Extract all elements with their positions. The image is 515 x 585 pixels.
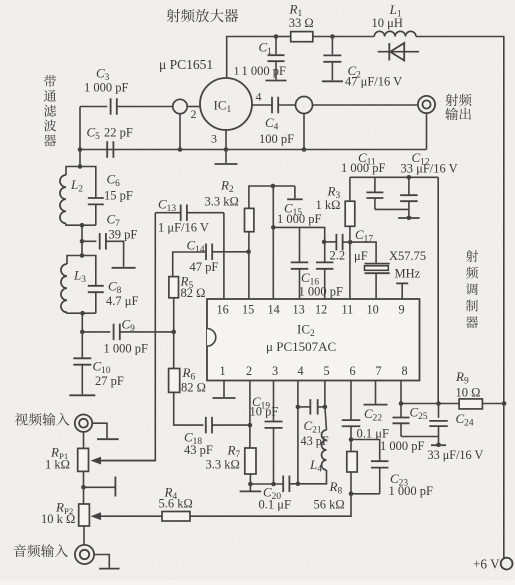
ground C2 [322, 80, 343, 82]
svg-text:12: 12 [315, 303, 327, 317]
label C4 [265, 115, 279, 133]
svg-text:100 pF: 100 pF [259, 132, 294, 146]
svg-text:+6 V: +6 V [473, 557, 500, 572]
junction C19 bottom [271, 482, 276, 487]
junction C24 top [436, 401, 441, 406]
wire ground rail y150 [80, 149, 427, 151]
junction R7 bottom [248, 482, 253, 487]
junction pin2-rail [178, 147, 183, 152]
label R2 [220, 178, 234, 196]
capacitor C3 [111, 98, 117, 115]
svg-text:1 000 pF: 1 000 pF [277, 212, 322, 226]
junction pin3-rail [224, 147, 229, 152]
diode VD1 [378, 43, 419, 61]
label RF modulator (射频调制器) [466, 250, 478, 328]
label crystal MHz [395, 267, 421, 281]
label C5 value [104, 126, 133, 140]
resistor R4 [162, 512, 190, 522]
wire video line vertical [100, 213, 155, 461]
label L1 value [372, 16, 403, 30]
junction L2 bottom [80, 223, 85, 228]
wire node down to rail [303, 114, 305, 150]
label C18 value [184, 443, 213, 457]
capacitor C2 [323, 37, 341, 81]
capacitor C21 [298, 399, 325, 415]
capacitor C15 (stub+bar) [287, 186, 303, 199]
label C14 value [190, 260, 219, 274]
label C22 value [357, 427, 389, 441]
ground C10 [69, 394, 95, 396]
svg-text:8: 8 [402, 364, 408, 378]
ground C7 [112, 267, 136, 269]
label C5 [87, 125, 101, 143]
svg-text:μ PC1507AC: μ PC1507AC [266, 339, 336, 354]
inductor L4 [298, 407, 327, 484]
wire pin4 down [297, 381, 299, 484]
label R3 [327, 184, 341, 202]
label C9 [122, 317, 136, 335]
labels IC2 bottom pins [220, 364, 408, 378]
capacitor C4 [272, 97, 278, 114]
label L3 [73, 268, 86, 286]
svg-text:3.3 kΩ: 3.3 kΩ [205, 195, 239, 209]
label C15 value [277, 212, 322, 226]
label IC2 [297, 322, 315, 340]
junction pin14 top [271, 184, 276, 189]
svg-text:1: 1 [234, 64, 240, 78]
wire R8 to R4 row [190, 494, 351, 516]
svg-text:2: 2 [246, 364, 252, 378]
svg-text:10 μH: 10 μH [372, 16, 403, 30]
label C20 value [259, 498, 291, 512]
wire pin7 stub [364, 381, 388, 405]
label μPC1651 [159, 57, 213, 72]
connector RF output [418, 96, 435, 113]
junction pin4/C20 [296, 482, 301, 487]
label RP2 [55, 500, 73, 517]
inductor L1 [374, 31, 416, 36]
svg-text:1 000 pF: 1 000 pF [380, 439, 425, 453]
inductor L3 [61, 256, 83, 314]
label IC1 pin1 [234, 64, 240, 78]
label R6 [182, 365, 196, 383]
wire pin6 down [350, 381, 352, 421]
svg-text:43 pF: 43 pF [184, 443, 213, 457]
label C19 value [250, 405, 279, 419]
junction C14/R2/pin15 [246, 250, 251, 255]
label crystal [389, 249, 426, 263]
junction pin8 row [399, 401, 404, 406]
ground C1 [266, 80, 287, 82]
capacitor C25 [393, 418, 439, 437]
wire pin2 node to IC1 [187, 106, 200, 108]
label C24 value [428, 448, 484, 462]
label C11 value [341, 161, 386, 175]
svg-text:1 μF/16 V: 1 μF/16 V [158, 221, 209, 235]
ground video connector [92, 423, 118, 439]
ground R7 [240, 484, 262, 491]
label C13 value [158, 221, 209, 235]
junction rail-left [78, 147, 83, 152]
capacitor C1 [268, 37, 285, 80]
ground IC1 pin3 [215, 150, 238, 165]
svg-text:14: 14 [268, 303, 280, 317]
junction node C2 [330, 34, 335, 39]
capacitor C22 [342, 420, 361, 439]
op-amp IC1 (μPC1651) [200, 78, 252, 130]
wire row 403 [401, 403, 459, 405]
svg-text:0.1 μF: 0.1 μF [259, 498, 291, 512]
resistor R3 [345, 177, 355, 299]
svg-text:10 Ω: 10 Ω [456, 386, 481, 400]
svg-text:4: 4 [298, 364, 304, 378]
wire pin9 stub [396, 283, 408, 299]
svg-text:3.3 kΩ: 3.3 kΩ [206, 458, 240, 472]
terminal +6V [501, 558, 513, 570]
label IC1 pin3 [211, 132, 217, 146]
resistor R6 [169, 369, 204, 426]
label R6 value [181, 381, 206, 395]
resistor R1 [276, 32, 332, 42]
svg-text:10 k Ω: 10 k Ω [41, 512, 75, 526]
arrow RP1 wiper [91, 457, 102, 465]
svg-text:7: 7 [376, 364, 382, 378]
label bandpass filter (带通滤波器) [44, 75, 56, 146]
junction R9/rail [502, 401, 507, 406]
resistor R9 [459, 399, 504, 409]
label RP1 [50, 445, 68, 462]
label C3 [96, 66, 110, 84]
label RF amplifier (射频放大器) [167, 9, 239, 22]
label C24 [456, 411, 474, 429]
resistor R2 [245, 186, 273, 299]
label C10 [93, 359, 111, 377]
label R4 [164, 485, 178, 503]
label RP1 value [45, 458, 70, 472]
svg-text:1 000 pF: 1 000 pF [242, 64, 287, 78]
capacitor C24 [429, 404, 448, 445]
svg-text:4.7 μF: 4.7 μF [106, 294, 138, 308]
wire L2-L3 link [81, 225, 83, 255]
junction C7 tap [80, 239, 85, 244]
svg-text:5: 5 [324, 364, 330, 378]
wire right long vertical [437, 177, 439, 403]
junction R8 bottom [349, 492, 354, 497]
label C21 value [301, 434, 329, 448]
wire bottom row 484 [250, 483, 283, 485]
label IC1 [214, 98, 232, 116]
junction R5/R6/C9 [171, 330, 176, 335]
svg-text:22 pF: 22 pF [104, 126, 133, 140]
junction node C1/R1 [274, 34, 279, 39]
ground audio connector [94, 555, 119, 569]
wire pin8 down [400, 381, 402, 418]
label C2 value [345, 75, 402, 89]
capacitor C9 [82, 324, 173, 341]
IC U2 (μPC1507AC) body [207, 299, 420, 381]
svg-text:1 000 pF: 1 000 pF [104, 342, 149, 356]
capacitor C23 [351, 440, 388, 494]
label IC1 pin2 [191, 107, 197, 121]
svg-text:6: 6 [350, 364, 356, 378]
svg-text:1 kΩ: 1 kΩ [45, 458, 70, 472]
label IC1 pin4 [256, 90, 262, 104]
junction RP1/RP2 [81, 485, 86, 490]
capacitor C20 [283, 476, 298, 493]
wire video conn to RP1 [83, 432, 85, 449]
junction C12 bottom [407, 216, 412, 221]
label C17 [355, 227, 373, 245]
junction pin14 mid [271, 225, 276, 230]
wire node to RF connector [313, 104, 419, 106]
capacitor C5 [107, 141, 113, 158]
capacitor C18 [206, 417, 250, 434]
svg-text:15: 15 [242, 303, 254, 317]
capacitor C14 [173, 244, 249, 277]
label C16 [301, 270, 319, 288]
wire C11C12 top [350, 176, 438, 178]
capacitor C11 [366, 177, 409, 209]
svg-text:MHz: MHz [395, 267, 421, 281]
resistor R8 [347, 440, 357, 494]
svg-text:82 Ω: 82 Ω [181, 381, 206, 395]
label C22 [364, 406, 382, 424]
svg-text:82 Ω: 82 Ω [181, 286, 206, 300]
svg-text:1 kΩ: 1 kΩ [316, 198, 341, 212]
connector audio input [75, 545, 94, 564]
label C23 [390, 471, 408, 489]
wire L1 to right rail corner [416, 37, 504, 559]
junction C17 tap [322, 240, 327, 245]
connector video input [75, 415, 92, 432]
wire node row 227 [273, 227, 324, 242]
label IC2 part [266, 339, 336, 354]
label C3 value [84, 81, 129, 95]
svg-text:33 μF/16 V: 33 μF/16 V [428, 448, 484, 462]
label R5 [180, 274, 194, 292]
label C13 [158, 197, 176, 215]
svg-text:47 pF: 47 pF [190, 260, 219, 274]
junction R3/C17/crystal [348, 240, 353, 245]
label C12 value [401, 161, 458, 175]
label C6 value [104, 189, 133, 203]
svg-text:11: 11 [342, 303, 354, 317]
label C10 value [95, 374, 124, 388]
label C17 value [330, 249, 368, 264]
wire R1 to L1 [332, 36, 374, 38]
label C4 value [259, 132, 294, 146]
label C21 [304, 418, 322, 436]
svg-text:1 000 pF: 1 000 pF [299, 285, 344, 299]
svg-text:2: 2 [191, 107, 197, 121]
svg-text:16: 16 [217, 303, 229, 317]
svg-text:5.6 kΩ: 5.6 kΩ [159, 497, 193, 511]
svg-text:4: 4 [256, 90, 262, 104]
labels IC2 top pins [217, 303, 405, 317]
label C25 value [380, 439, 425, 453]
junction C24 bottom [436, 443, 441, 448]
label R3 value [316, 198, 341, 212]
wire C4 to node [278, 104, 295, 106]
svg-text:39 pF: 39 pF [109, 228, 138, 242]
label +6V [473, 557, 500, 572]
resistor R7 [245, 448, 256, 484]
potentiometer RP2 [79, 504, 90, 545]
junction pin5/C21 [323, 405, 328, 410]
label C25 [410, 405, 428, 423]
label R1 [289, 2, 303, 20]
wire left column top [79, 107, 81, 167]
label C11 [358, 150, 376, 168]
capacitor C8 [82, 256, 104, 314]
wire IC1 pin4 [252, 104, 272, 106]
wire pin2 node down [179, 114, 181, 150]
svg-text:μF: μF [354, 249, 368, 263]
label C1 value [242, 64, 287, 78]
label C9 value [104, 342, 149, 356]
label C6 [107, 172, 121, 190]
wire pin1 ground [213, 381, 236, 399]
label C8 [108, 279, 122, 297]
junction node-rail [302, 147, 307, 152]
label C7 [107, 212, 121, 230]
label C8 value [106, 294, 138, 308]
capacitor C6 [80, 167, 104, 226]
svg-text:10 pF: 10 pF [250, 405, 279, 419]
capacitor C16a (pin13) [291, 227, 309, 299]
label C7 value [109, 228, 138, 242]
svg-text:56 kΩ: 56 kΩ [314, 498, 345, 512]
capacitor C19 on pin3 [265, 381, 283, 485]
svg-text:1 000 pF: 1 000 pF [84, 81, 129, 95]
crystal X1 57.75MHz [350, 242, 390, 299]
svg-text:3: 3 [211, 132, 217, 146]
wire pin5 down [324, 381, 326, 407]
label R8 [329, 479, 343, 497]
label C2 [348, 63, 362, 81]
label RP2 value [41, 512, 75, 526]
wire L3 to C9 node [81, 313, 83, 332]
svg-text:1 000 pF: 1 000 pF [341, 161, 386, 175]
label L4 [309, 457, 322, 475]
capacitor C17 [324, 234, 350, 251]
wire C13 to pin16 [223, 213, 225, 299]
arrow RP2 wiper [91, 512, 102, 520]
wire R4 to RP2 wiper [101, 515, 162, 517]
capacitor C13 [155, 204, 224, 221]
node IC1 pin2 circle [173, 99, 187, 113]
label C18 [184, 430, 202, 448]
resistor R5 [169, 277, 179, 369]
svg-text:9: 9 [399, 303, 405, 317]
label video input (视频输入) [15, 413, 70, 426]
label L2 [70, 177, 83, 195]
capacitor C7 [82, 233, 124, 267]
junction L3 bottom [80, 311, 85, 316]
inductor L2 [60, 167, 82, 226]
label R1 value [289, 16, 314, 30]
label C16 value [299, 285, 344, 299]
label R7 value [206, 458, 240, 472]
label C1 [259, 40, 273, 58]
label C15 [284, 201, 302, 219]
label L1 [389, 2, 402, 20]
junction C12 top [407, 175, 412, 180]
potentiometer RP1 [78, 448, 89, 504]
label R9 value [456, 386, 481, 400]
svg-text:μ PC1651: μ PC1651 [159, 57, 213, 72]
node output circle [296, 97, 313, 114]
bar C12 bottom [398, 217, 420, 219]
wire IC1 pin3 [225, 130, 227, 150]
junction L2 top [78, 164, 83, 169]
capacitor C12 [400, 177, 418, 217]
svg-text:2.2: 2.2 [330, 249, 346, 263]
label R5 value [181, 286, 206, 300]
bar C24 bottom [431, 444, 446, 446]
label R4 value [159, 497, 193, 511]
capacitor C16b (pin12) [316, 242, 334, 299]
label R2 value [205, 195, 239, 209]
label C12 [412, 150, 430, 168]
label C19 [252, 394, 270, 412]
svg-text:15 pF: 15 pF [104, 189, 133, 203]
label RF output (射频输出) [445, 94, 471, 120]
svg-text:13: 13 [293, 303, 305, 317]
capacitor C10 [73, 332, 91, 394]
label C20 [263, 485, 281, 503]
svg-text:47 μF/16 V: 47 μF/16 V [345, 75, 402, 89]
label R7 [227, 443, 241, 461]
junction C18/pin2 [248, 423, 253, 428]
wire RP1 wiper line [101, 460, 155, 462]
junction L3 top [80, 253, 85, 258]
junction pin4/C21 [296, 405, 301, 410]
svg-text:1 000 pF: 1 000 pF [389, 484, 434, 498]
ground mid (rotated) [84, 477, 116, 497]
label C14 [187, 238, 205, 256]
junction C9 tap [80, 330, 85, 335]
svg-text:1: 1 [220, 364, 226, 378]
svg-text:33 Ω: 33 Ω [289, 16, 314, 30]
label R9 [455, 369, 469, 387]
wire C3 row [80, 106, 107, 108]
svg-text:27 pF: 27 pF [95, 374, 124, 388]
wire RF connector down to rail [426, 113, 428, 149]
junction C22/R8 [349, 437, 354, 442]
label C23 value [389, 484, 434, 498]
label audio input (音频输入) [14, 544, 68, 557]
wire pin14 vertical [272, 186, 274, 299]
wire R2top to C15 gnd [273, 185, 295, 187]
svg-text:3: 3 [272, 364, 278, 378]
wire IC1 pin1 to top rail [227, 37, 276, 79]
wire pin2 down [249, 381, 251, 449]
svg-text:X57.75: X57.75 [389, 249, 426, 263]
svg-text:10: 10 [367, 303, 379, 317]
wire C3 to pin2 node [117, 106, 173, 108]
label R8 value [314, 498, 345, 512]
svg-text:33 μF/16 V: 33 μF/16 V [401, 161, 458, 175]
